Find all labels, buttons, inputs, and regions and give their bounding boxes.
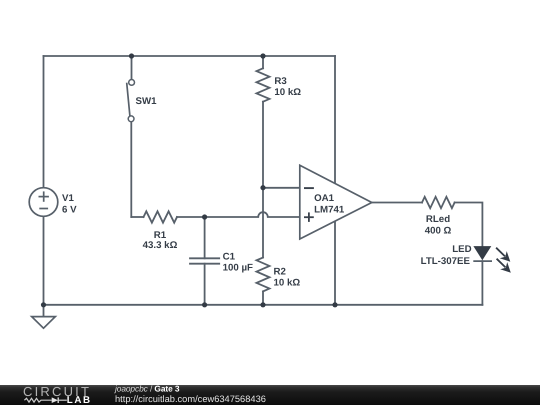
resistor R2 bbox=[257, 258, 270, 292]
node op-amp Vminus bottom junction bbox=[332, 302, 337, 307]
svg-text:http://circuitlab.com/cew63475: http://circuitlab.com/cew6347568436 bbox=[115, 394, 266, 404]
switch SW1 bbox=[127, 80, 135, 122]
LED D1 triangle bbox=[474, 247, 490, 260]
wire C1 bottom lead bbox=[204, 264, 206, 305]
ground bbox=[32, 317, 56, 329]
wire LED bottom lead bbox=[481, 261, 483, 305]
voltage source V1 bbox=[29, 188, 58, 217]
svg-text:400 Ω: 400 Ω bbox=[425, 226, 452, 237]
wire top rail bbox=[44, 55, 336, 57]
CircuitLab logo diode bbox=[52, 397, 58, 403]
wire R3 to R2 vertical bbox=[262, 102, 264, 258]
node A junction R1/C1/plus bbox=[202, 214, 207, 219]
node minus input junction bbox=[260, 185, 265, 190]
resistor R3 bbox=[257, 68, 270, 101]
svg-text:joaopcbc / Gate 3: joaopcbc / Gate 3 bbox=[114, 384, 180, 394]
svg-text:V1: V1 bbox=[62, 193, 74, 204]
wire op-amp output bbox=[372, 202, 422, 204]
wire ground lead bbox=[43, 305, 45, 317]
svg-text:10 kΩ: 10 kΩ bbox=[274, 87, 301, 98]
node R2 bottom junction bbox=[260, 302, 265, 307]
svg-text:100 µF: 100 µF bbox=[223, 262, 253, 273]
svg-text:LM741: LM741 bbox=[314, 205, 345, 216]
node C1 bottom junction bbox=[202, 302, 207, 307]
LED cathode bar bbox=[473, 260, 492, 262]
resistor RLed bbox=[422, 197, 455, 208]
wire op-amp power rail vertical bbox=[334, 56, 336, 305]
node SW1 top junction bbox=[129, 53, 134, 58]
wire R1 right lead bbox=[177, 216, 205, 218]
svg-text:LTL-307EE: LTL-307EE bbox=[421, 256, 471, 267]
wire RLed to LED corner bbox=[455, 203, 483, 247]
wire minus input bbox=[263, 187, 300, 189]
op-amp plus symbol bbox=[304, 212, 314, 222]
svg-text:43.3 kΩ: 43.3 kΩ bbox=[143, 240, 178, 251]
op-amp OA1 bbox=[300, 165, 372, 239]
wire bottom rail bbox=[44, 304, 483, 306]
svg-text:RLed: RLed bbox=[426, 214, 450, 225]
wire left rail lower bbox=[43, 216, 45, 304]
node R3 top junction bbox=[260, 53, 265, 58]
wire node A to op-amp plus with hop bbox=[205, 212, 300, 217]
op-amp minus symbol bbox=[304, 187, 314, 189]
wire R1 left lead bbox=[131, 216, 143, 218]
svg-text:LAB: LAB bbox=[67, 395, 92, 405]
svg-text:SW1: SW1 bbox=[136, 96, 158, 107]
wire R2 bottom lead bbox=[262, 291, 264, 304]
svg-text:OA1: OA1 bbox=[314, 193, 335, 204]
node ground junction bbox=[41, 302, 46, 307]
capacitor C1 bbox=[190, 257, 219, 259]
wire C1 top lead bbox=[204, 217, 206, 258]
svg-text:C1: C1 bbox=[223, 252, 236, 263]
CircuitLab logo resistor zigzag bbox=[24, 398, 51, 402]
wire left rail upper bbox=[43, 56, 45, 188]
wire R3 top lead bbox=[262, 56, 264, 68]
svg-text:LED: LED bbox=[452, 244, 471, 255]
LED light arrows bbox=[496, 248, 511, 273]
svg-text:10 kΩ: 10 kΩ bbox=[274, 277, 301, 288]
svg-text:R3: R3 bbox=[274, 76, 287, 87]
wire SW1 branch lower bbox=[130, 122, 132, 218]
svg-text:R2: R2 bbox=[274, 266, 286, 277]
wire SW1 branch upper bbox=[131, 56, 133, 79]
resistor R1 bbox=[144, 211, 178, 222]
svg-text:6 V: 6 V bbox=[62, 205, 77, 216]
